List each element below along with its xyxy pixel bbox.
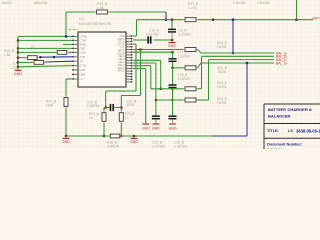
- svg-text:LX: LX: [80, 77, 83, 81]
- svg-text:75/1W: 75/1W: [217, 101, 226, 105]
- svg-text:75/1W: 75/1W: [217, 70, 226, 74]
- svg-text:10: 10: [125, 116, 129, 120]
- svg-text:B 3.28.16: B 3.28.16: [267, 148, 282, 149]
- svg-text:CM1: CM1: [80, 47, 86, 51]
- svg-text:1.5k: 1.5k: [97, 6, 104, 10]
- svg-text:1.27k: 1.27k: [188, 6, 197, 10]
- svg-text:2.2u/16V: 2.2u/16V: [174, 144, 188, 148]
- svg-text:75/1W: 75/1W: [217, 85, 226, 89]
- svg-text:2.2u/16V: 2.2u/16V: [233, 1, 247, 5]
- svg-text:LMB: LMB: [80, 73, 86, 77]
- svg-text:BALANCER: BALANCER: [268, 114, 291, 119]
- svg-text:1.5k: 1.5k: [4, 53, 11, 57]
- svg-text:10: 10: [89, 116, 93, 120]
- svg-text:IC1: IC1: [79, 17, 84, 21]
- svg-text:GND: GND: [169, 127, 177, 131]
- svg-text:GND: GND: [152, 127, 160, 131]
- svg-text:CON: CON: [80, 51, 86, 55]
- svg-text:100n: 100n: [127, 103, 134, 107]
- svg-text:Document Number:: Document Number:: [267, 143, 302, 147]
- svg-text:CM3: CM3: [80, 68, 86, 72]
- svg-text:SCL: SCL: [12, 65, 18, 69]
- svg-text:100k: 100k: [46, 104, 54, 108]
- svg-text:BATTERY CHARGER &: BATTERY CHARGER &: [268, 107, 312, 112]
- svg-text:LS: LS: [288, 129, 293, 133]
- svg-text:2.2u/16V: 2.2u/16V: [178, 77, 192, 81]
- svg-text:PMID: PMID: [80, 43, 87, 47]
- svg-text:3638.06.06-10: 3638.06.06-10: [296, 129, 320, 134]
- svg-text:SCA: SCA: [12, 61, 18, 65]
- svg-text:CTNC: CTNC: [80, 39, 88, 43]
- svg-text:GND: GND: [14, 72, 22, 76]
- svg-text:3.3k/1W: 3.3k/1W: [107, 144, 120, 148]
- svg-text:2.2u/16V: 2.2u/16V: [179, 33, 193, 37]
- svg-text:GND: GND: [142, 127, 150, 131]
- svg-text:GND: GND: [168, 44, 176, 48]
- svg-text:BAL2: BAL2: [118, 69, 125, 73]
- svg-text:GND: GND: [130, 140, 138, 144]
- svg-text:CTND: CTND: [80, 35, 88, 39]
- svg-text:2.2u/16V: 2.2u/16V: [152, 144, 166, 148]
- svg-text:GND: GND: [62, 140, 70, 144]
- svg-text:2.2u/16V: 2.2u/16V: [146, 33, 160, 37]
- svg-text:BAT+: BAT+: [313, 17, 320, 21]
- svg-text:4.7: 4.7: [31, 45, 36, 49]
- svg-text:8u/16V: 8u/16V: [2, 1, 13, 5]
- svg-text:TITLE:: TITLE:: [267, 129, 279, 133]
- svg-text:BAL_D: BAL_D: [276, 61, 287, 65]
- svg-text:2.2u/16V: 2.2u/16V: [257, 1, 271, 5]
- svg-text:TTB: TTB: [80, 55, 85, 59]
- svg-text:GOW: GOW: [80, 64, 87, 68]
- svg-text:MAX1873SETM+LTM: MAX1873SETM+LTM: [79, 22, 111, 26]
- svg-text:2.2u/16V: 2.2u/16V: [178, 54, 192, 58]
- svg-text:2.2u/16V: 2.2u/16V: [87, 104, 101, 108]
- svg-text:TS: TS: [80, 59, 84, 63]
- svg-text:75/1W: 75/1W: [217, 45, 226, 49]
- svg-text:880p/16V: 880p/16V: [34, 1, 49, 5]
